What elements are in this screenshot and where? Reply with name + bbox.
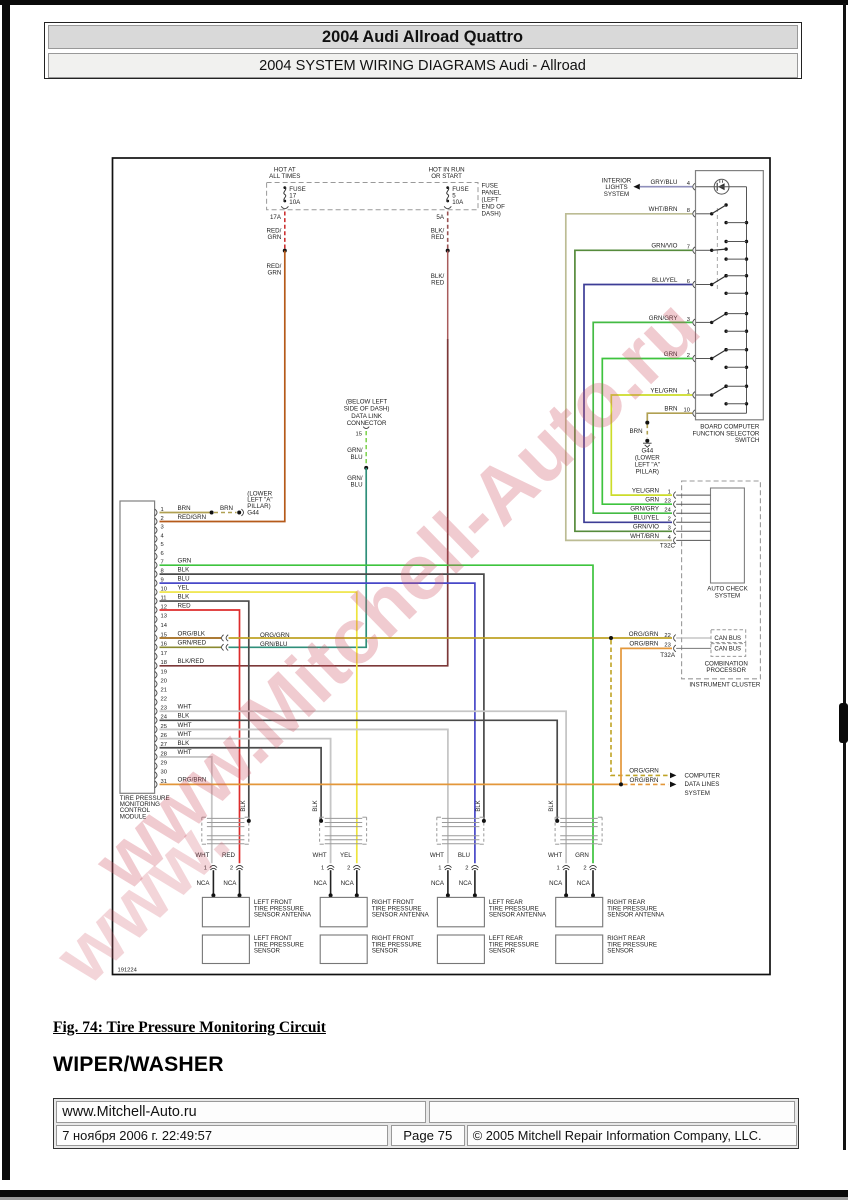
junction on BRN wire — [210, 511, 214, 515]
wire YEL module pin 10 to right front antenna pin 2 — [160, 592, 357, 863]
left rear tire pressure sensor antenna box — [437, 897, 484, 926]
module pin 1 — [155, 509, 157, 516]
module pin 26 — [155, 735, 157, 742]
wire ORG/GRN dashed branch to computer data lines — [611, 640, 668, 775]
right rear antenna inductive coupling — [554, 817, 556, 844]
svg-text:RED/GRN: RED/GRN — [178, 514, 207, 521]
svg-text:22: 22 — [161, 697, 167, 703]
wire GRN switch pin 2 to instrument cluster T32C pin 23 — [602, 359, 692, 505]
svg-text:SIDE OF DASH): SIDE OF DASH) — [344, 406, 390, 413]
svg-text:T32C: T32C — [660, 543, 676, 550]
module pin 8 — [155, 571, 157, 578]
svg-text:ORG/GRN: ORG/GRN — [260, 632, 290, 639]
wire GRN/VIO switch pin 7 to instrument cluster T32C pin 3 — [575, 250, 692, 531]
svg-text:GRN: GRN — [268, 234, 282, 241]
svg-text:CONNECTOR: CONNECTOR — [347, 420, 387, 427]
svg-text:3: 3 — [668, 526, 671, 532]
svg-text:(LEFT: (LEFT — [482, 196, 499, 203]
module pin 7 — [155, 562, 157, 569]
svg-text:NCA: NCA — [314, 880, 328, 887]
module pin 21 — [155, 690, 157, 697]
wire BLK module pin 24 to right rear antenna coupling — [160, 720, 558, 819]
svg-text:NCA: NCA — [459, 880, 473, 887]
wire BLK module pin 27 to right front antenna coupling — [160, 748, 322, 819]
svg-text:BLK: BLK — [313, 800, 319, 811]
svg-text:1: 1 — [668, 490, 671, 496]
wire NCA pin2 left rear — [474, 870, 476, 896]
svg-text:5A: 5A — [436, 214, 444, 221]
module pin 9 — [155, 580, 157, 587]
wire NCA pin2 left front — [239, 870, 241, 896]
svg-text:GRN: GRN — [268, 269, 282, 276]
svg-text:BLU: BLU — [351, 454, 363, 461]
module pin 29 — [155, 763, 157, 770]
svg-text:NCA: NCA — [577, 880, 591, 887]
wire GRN/GRY switch pin 3 to instrument cluster T32C pin 24 — [593, 322, 692, 513]
wire NCA pin1 right front — [330, 870, 332, 896]
svg-text:RED: RED — [431, 280, 445, 287]
switch actuator dashed linkage — [716, 208, 718, 290]
BLK wire terminal dot at right rear coupling — [555, 819, 559, 823]
wire ORG/BLK module pin 15 stub — [160, 637, 222, 639]
module pin 15 — [155, 635, 157, 642]
svg-text:WHT: WHT — [313, 852, 327, 859]
svg-text:1: 1 — [556, 866, 559, 872]
svg-text:ORG/GRN: ORG/GRN — [629, 768, 659, 775]
svg-text:NCA: NCA — [223, 880, 237, 887]
svg-text:DATA LINES: DATA LINES — [685, 781, 720, 788]
wire RED/GRN solid from junction down to module pin 2 — [160, 251, 285, 522]
wire ORG/GRN from splice to T32A pin 22 — [229, 637, 672, 639]
svg-text:SENSOR ANTENNA: SENSOR ANTENNA — [254, 912, 312, 919]
svg-text:GRN: GRN — [645, 497, 659, 504]
module pin 10 — [155, 589, 157, 596]
svg-text:WHT: WHT — [178, 722, 192, 729]
svg-text:BLK/RED: BLK/RED — [178, 658, 205, 665]
module pin 16 — [155, 644, 157, 651]
switch internal wiring — [696, 186, 747, 188]
wire BLK/RED solid from junction down to module pin 18 — [447, 251, 449, 339]
wire WHT module pin 25 to left rear antenna pin 1 — [160, 729, 448, 863]
svg-text:WHT: WHT — [430, 852, 444, 859]
right front tire pressure sensor antenna box — [320, 897, 367, 926]
module pin 31 — [155, 781, 157, 788]
switch blade at pin 8 — [696, 213, 712, 215]
wire NCA pin2 right front — [356, 870, 358, 896]
module pin 6 — [155, 553, 157, 560]
module pin 17 — [155, 653, 157, 660]
wire BRN switch pin 10 — [647, 413, 692, 421]
module pin 25 — [155, 726, 157, 733]
svg-text:2: 2 — [347, 866, 350, 872]
svg-text:2: 2 — [161, 516, 164, 522]
svg-text:SENSOR ANTENNA: SENSOR ANTENNA — [372, 912, 430, 919]
svg-text:SWITCH: SWITCH — [735, 437, 759, 444]
module pin 28 — [155, 754, 157, 761]
junction on BLK/RED wire — [446, 249, 450, 253]
wire GRN/BLU solid from junction to module pin 16 splice — [229, 468, 367, 647]
wire BRN dashed to ground — [646, 425, 648, 438]
svg-text:21: 21 — [161, 687, 167, 693]
svg-text:SENSOR ANTENNA: SENSOR ANTENNA — [607, 912, 665, 919]
svg-text:BRN: BRN — [664, 406, 677, 413]
svg-text:SYSTEM: SYSTEM — [715, 593, 740, 600]
svg-text:2: 2 — [583, 866, 586, 872]
svg-text:PILLAR): PILLAR) — [636, 468, 659, 475]
left rear antenna inductive coupling — [436, 817, 438, 844]
svg-text:13: 13 — [161, 614, 167, 620]
BLK wire terminal dot at left front coupling — [247, 819, 251, 823]
arrow ORG/BRN to computer data lines system — [670, 782, 676, 788]
wire RED/GRN dashed segment below fuse 17 — [284, 212, 286, 249]
svg-text:1: 1 — [321, 866, 324, 872]
svg-text:19: 19 — [161, 669, 167, 675]
junction on ORG/GRN wire — [609, 636, 613, 640]
wire RED module pin 12 to left front antenna pin 2 — [160, 610, 240, 863]
svg-text:1: 1 — [438, 866, 441, 872]
wire ORG/BRN module pin 31 — [160, 783, 622, 785]
splice on pin 15 wire — [222, 635, 224, 641]
svg-text:23: 23 — [664, 499, 670, 505]
switch blade at pin 6 — [696, 284, 712, 286]
svg-text:YEL: YEL — [178, 584, 190, 591]
svg-text:YEL: YEL — [340, 852, 352, 859]
svg-text:17: 17 — [161, 651, 167, 657]
svg-text:BLK: BLK — [549, 800, 555, 811]
svg-text:(BELOW LEFT: (BELOW LEFT — [346, 399, 387, 406]
svg-text:15: 15 — [356, 432, 362, 438]
fuse 17 10A — [283, 186, 286, 189]
svg-text:BLK: BLK — [476, 800, 482, 811]
svg-text:WHT: WHT — [548, 852, 562, 859]
board computer function selector switch S1 box — [696, 171, 764, 420]
diagram border frame — [113, 158, 771, 975]
svg-text:G44: G44 — [641, 447, 653, 454]
svg-text:DASH): DASH) — [482, 210, 501, 217]
wire GRY/BLU switch pin 4 to interior lights — [640, 186, 693, 188]
svg-text:BLU/YEL: BLU/YEL — [652, 277, 678, 284]
module pin 5 — [155, 544, 157, 551]
combination processor CAN BUS boxes — [711, 630, 746, 643]
svg-text:20: 20 — [161, 678, 167, 684]
svg-text:YEL/GRN: YEL/GRN — [632, 488, 659, 495]
svg-text:18: 18 — [161, 660, 167, 666]
module pin 4 — [155, 536, 157, 543]
svg-text:GRN/VIO: GRN/VIO — [651, 243, 677, 250]
svg-text:ALL TIMES: ALL TIMES — [269, 173, 300, 180]
svg-text:BLU: BLU — [178, 575, 190, 582]
module pin 22 — [155, 699, 157, 706]
wire NCA pin1 left front — [212, 870, 214, 896]
module pin 13 — [155, 616, 157, 623]
svg-text:SENSOR: SENSOR — [607, 948, 634, 955]
svg-text:G44: G44 — [247, 510, 259, 517]
wire ORG/BRN dashed to computer data lines — [623, 783, 668, 785]
svg-text:SENSOR: SENSOR — [372, 948, 399, 955]
ground G44 (switch side) — [645, 439, 649, 443]
svg-text:GRN: GRN — [178, 558, 192, 565]
wire BLU module pin 9 to left rear antenna pin 2 — [160, 583, 475, 863]
junction ORG/BRN — [619, 782, 623, 786]
left front antenna inductive coupling — [201, 817, 203, 844]
svg-text:T32A: T32A — [660, 652, 676, 659]
right rear tire pressure sensor antenna box — [556, 897, 603, 926]
svg-text:BRN: BRN — [220, 505, 233, 512]
arrow to interior lights system — [633, 184, 639, 190]
wire YEL/GRN switch pin 1 to instrument cluster T32C pin 1 — [611, 395, 692, 495]
wire GRN/RED module pin 16 stub — [160, 646, 222, 648]
svg-text:5: 5 — [161, 542, 164, 548]
svg-text:AUTO CHECK: AUTO CHECK — [707, 586, 748, 593]
module pin 12 — [155, 607, 157, 614]
wire WHT module pin 23 to right rear antenna pin 1 — [160, 711, 567, 863]
wire NCA pin2 right rear — [592, 870, 594, 896]
switch blade at pin 1 — [696, 394, 712, 396]
instrument cluster dashed box — [682, 481, 761, 679]
svg-text:PANEL: PANEL — [482, 189, 502, 196]
svg-text:BRN: BRN — [178, 505, 191, 512]
left front tire pressure sensor box — [202, 935, 249, 964]
junction on RED/GRN wire — [283, 249, 287, 253]
switch blade at pin 3 — [696, 321, 712, 323]
svg-text:CAN BUS: CAN BUS — [714, 646, 741, 652]
fuse 5 output terminal 5A — [444, 206, 451, 208]
fuse 5 10A — [446, 186, 449, 189]
switch blade at pin 7 (closed) — [696, 249, 712, 251]
svg-text:(LOWER: (LOWER — [635, 454, 660, 461]
svg-text:BLU/YEL: BLU/YEL — [634, 515, 660, 522]
svg-text:BLU: BLU — [458, 852, 470, 859]
svg-text:BLK: BLK — [178, 713, 191, 720]
module pin 3 — [155, 527, 157, 534]
svg-text:GRN: GRN — [575, 852, 589, 859]
arrow ORG/GRN to computer data lines system — [670, 773, 676, 779]
svg-text:17A: 17A — [270, 214, 282, 221]
svg-text:INSTRUMENT CLUSTER: INSTRUMENT CLUSTER — [689, 681, 761, 688]
splice on pin 16 wire — [222, 644, 224, 650]
junction on GRN/BLU wire — [364, 466, 368, 470]
wire BRN dashed to ground G44 — [214, 512, 237, 514]
svg-text:BRN: BRN — [630, 428, 643, 435]
module pin 2 — [155, 518, 157, 525]
wire BLK module pin 11 to left front antenna coupling — [160, 601, 249, 819]
svg-text:14: 14 — [161, 623, 168, 629]
svg-text:CAN BUS: CAN BUS — [714, 636, 741, 642]
wire GRN/BLU dashed from DLC pin 15 — [365, 431, 367, 466]
module pin 14 — [155, 625, 157, 632]
svg-text:GRY/BLU: GRY/BLU — [650, 179, 677, 186]
svg-text:SENSOR: SENSOR — [489, 948, 516, 955]
ground G44 (module side, lower left A pillar) — [237, 511, 241, 515]
svg-text:GRN/RED: GRN/RED — [178, 640, 207, 647]
svg-text:END OF: END OF — [482, 203, 506, 210]
svg-text:BLK: BLK — [178, 566, 191, 573]
tire pressure monitoring control module box — [120, 501, 155, 793]
svg-text:2: 2 — [465, 866, 468, 872]
svg-text:SYSTEM: SYSTEM — [685, 790, 710, 797]
fuse 17 output terminal 17A — [281, 206, 288, 208]
module pin 18 — [155, 662, 157, 669]
wire BLK module pin 8 to left rear antenna coupling — [160, 574, 484, 819]
right front tire pressure sensor box — [320, 935, 367, 964]
svg-text:RED: RED — [431, 234, 445, 241]
svg-text:SYSTEM: SYSTEM — [604, 191, 629, 198]
wire BLK/RED dashed segment below fuse 5 — [447, 212, 449, 249]
junction on BRN wire — [645, 421, 649, 425]
svg-text:BLK: BLK — [178, 593, 191, 600]
left rear tire pressure sensor box — [437, 935, 484, 964]
svg-text:NCA: NCA — [431, 880, 445, 887]
wire WHT module pin 28 to left front antenna pin 1 — [160, 757, 212, 863]
wire BLU/YEL switch pin 6 to instrument cluster T32C pin 2 — [584, 285, 692, 523]
svg-text:NCA: NCA — [341, 880, 355, 887]
svg-text:GRN/GRY: GRN/GRY — [630, 506, 659, 513]
svg-text:NCA: NCA — [549, 880, 563, 887]
svg-text:4: 4 — [161, 533, 165, 539]
module pin 27 — [155, 744, 157, 751]
fuse panel box (left end of dash) — [267, 183, 478, 210]
module pin 30 — [155, 772, 157, 779]
left front tire pressure sensor antenna box — [202, 897, 249, 926]
svg-text:10A: 10A — [289, 199, 301, 206]
svg-text:24: 24 — [664, 508, 671, 514]
svg-text:WHT: WHT — [178, 704, 192, 711]
svg-text:10A: 10A — [452, 199, 464, 206]
right front antenna inductive coupling — [319, 817, 321, 844]
module pin 20 — [155, 681, 157, 688]
svg-text:WHT/BRN: WHT/BRN — [630, 533, 659, 540]
wire WHT/BRN switch pin 8 to instrument cluster T32C pin 4 — [566, 214, 693, 541]
right rear tire pressure sensor box — [556, 935, 603, 964]
auto check system box — [711, 488, 745, 583]
svg-text:OR START: OR START — [431, 173, 462, 180]
svg-text:PROCESSOR: PROCESSOR — [706, 667, 746, 674]
svg-text:3: 3 — [161, 525, 164, 531]
wire ORG/BRN T32A pin 23 down to junction — [621, 648, 672, 784]
svg-text:ORG/BRN: ORG/BRN — [630, 777, 659, 784]
svg-text:BLU: BLU — [351, 481, 363, 488]
svg-text:RED: RED — [178, 602, 192, 609]
wire NCA pin1 right rear — [565, 870, 567, 896]
switch contact ladder — [724, 221, 727, 224]
svg-text:GRN/VIO: GRN/VIO — [633, 524, 659, 531]
module pin 11 — [155, 598, 157, 605]
svg-text:FUSE: FUSE — [482, 182, 499, 189]
wire NCA pin1 left rear — [447, 870, 449, 896]
wire BRN module pin 1 — [160, 512, 212, 514]
BLK wire terminal dot at left rear coupling — [482, 819, 486, 823]
module pin 23 — [155, 708, 157, 715]
svg-text:SENSOR: SENSOR — [254, 948, 281, 955]
module pin 19 — [155, 671, 157, 678]
svg-text:LEFT "A": LEFT "A" — [635, 461, 660, 468]
svg-text:ORG/BRN: ORG/BRN — [629, 641, 658, 648]
svg-text:SENSOR ANTENNA: SENSOR ANTENNA — [489, 912, 547, 919]
svg-text:COMPUTER: COMPUTER — [685, 773, 721, 780]
BLK wire terminal dot at right front coupling — [319, 819, 323, 823]
svg-text:ORG/BLK: ORG/BLK — [178, 630, 206, 637]
wire WHT module pin 26 to right front antenna pin 1 — [160, 739, 331, 864]
switch blade at pin 2 — [696, 358, 712, 360]
svg-text:6: 6 — [161, 551, 164, 557]
svg-text:WHT/BRN: WHT/BRN — [649, 206, 678, 213]
module pin 24 — [155, 717, 157, 724]
svg-text:2: 2 — [668, 517, 671, 523]
switch internal lamp symbol — [714, 179, 729, 194]
wire GRN module pin 7 to right rear antenna pin 2 — [160, 565, 594, 863]
svg-text:DATA LINK: DATA LINK — [351, 413, 383, 420]
watermark (decorative) — [76, 281, 716, 906]
